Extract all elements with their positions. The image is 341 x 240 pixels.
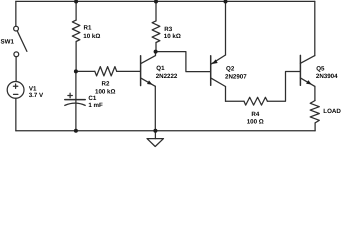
svg-text:2N2222: 2N2222 — [156, 73, 178, 80]
source V1 — [7, 82, 24, 99]
svg-text:R2: R2 — [102, 81, 110, 88]
svg-text:R1: R1 — [84, 25, 92, 32]
wire R2 left lead — [76, 70, 95, 72]
svg-text:Q5: Q5 — [316, 65, 325, 72]
svg-text:3.7 V: 3.7 V — [29, 92, 44, 99]
resistor R4 — [244, 97, 267, 105]
wire top rail — [16, 0, 315, 2]
wire R2 to Q1 base — [117, 70, 140, 72]
transistor Q2 — [211, 55, 226, 87]
wire switch to V1 — [15, 57, 17, 82]
svg-text:SW1: SW1 — [1, 39, 15, 46]
node top rail / R1 — [74, 0, 78, 4]
wire Q5 emitter to LOAD — [314, 86, 316, 100]
svg-text:R4: R4 — [251, 111, 259, 118]
node top rail / Q2 emitter — [224, 0, 228, 4]
svg-text:1 mF: 1 mF — [88, 102, 103, 109]
arrow Q2 emitter — [212, 59, 218, 64]
wire R1 top lead — [75, 1, 77, 20]
node R3/Q1 collector — [154, 50, 158, 54]
svg-text:R3: R3 — [164, 26, 172, 33]
capacitor C1 — [65, 93, 85, 105]
svg-text:10 kΩ: 10 kΩ — [164, 33, 181, 40]
ground — [147, 131, 164, 147]
wire R1 bottom lead — [75, 42, 77, 72]
wire V1 to bottom rail — [15, 98, 17, 131]
svg-text:100 Ω: 100 Ω — [247, 118, 264, 125]
svg-text:LOAD: LOAD — [323, 108, 341, 115]
wire bottom rail — [16, 130, 315, 132]
transistor Q5 — [300, 55, 315, 86]
svg-text:Q2: Q2 — [226, 65, 235, 72]
arrow Q5 emitter — [306, 80, 312, 84]
transistor Q1 — [141, 52, 156, 87]
wire Q2 emitter to top rail — [225, 1, 227, 55]
node bottom rail / ground — [153, 129, 157, 133]
node bottom rail / C1 — [74, 129, 78, 133]
node top rail / R3 — [154, 0, 158, 4]
wire LOAD bottom lead — [314, 123, 316, 131]
wire Q2 collector down — [225, 87, 227, 102]
svg-text:Q1: Q1 — [156, 65, 165, 72]
resistor LOAD — [310, 101, 319, 123]
switch SW1 — [14, 26, 27, 56]
resistor R1 — [72, 20, 80, 41]
svg-text:2N3904: 2N3904 — [316, 73, 338, 80]
wire R3 bottom lead — [155, 43, 157, 52]
wire R4 left lead — [226, 100, 245, 102]
wire left rail to switch — [15, 1, 17, 26]
wire right column upper (top rail to Q5 collector) — [314, 1, 316, 55]
svg-text:10 kΩ: 10 kΩ — [83, 33, 100, 40]
resistor R3 — [152, 21, 160, 43]
arrow Q1 emitter — [147, 80, 153, 84]
resistor R2 — [95, 67, 117, 76]
wire node to Q2 base with jog — [156, 52, 210, 72]
svg-text:100 kΩ: 100 kΩ — [95, 88, 115, 95]
wire Q1 emitter down — [154, 86, 156, 131]
node R1/R2/C1 — [74, 69, 78, 73]
wire R4 to Q5 base (right, up, right) — [267, 72, 299, 102]
svg-text:C1: C1 — [88, 95, 96, 102]
svg-text:2N2907: 2N2907 — [225, 74, 247, 81]
wire R3 top lead — [155, 1, 157, 21]
wire C1 top lead — [75, 71, 77, 130]
